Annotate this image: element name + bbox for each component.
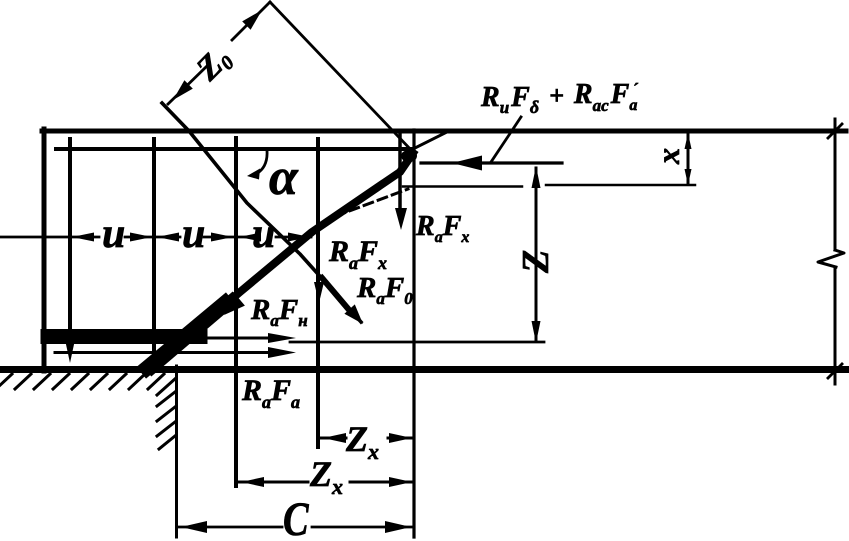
top longitudinal rebar [56, 147, 413, 151]
extension line y=186 left [403, 185, 522, 188]
compression force arrowhead [452, 156, 482, 171]
Z0 top arrowhead [242, 10, 262, 30]
compression force line [421, 161, 562, 164]
Zx dimension [239, 481, 412, 484]
stirrup 3 / Zx extension [234, 138, 238, 486]
inclined crack / bent-up bar [150, 153, 413, 369]
rebar level extension line [290, 341, 544, 344]
svg-text:α: α [269, 149, 299, 206]
stirrup 1 [68, 139, 72, 348]
RaFa anchorage force arrow [55, 351, 280, 354]
RaFx force arrow at x=400 [398, 135, 402, 215]
beam left edge [42, 129, 47, 371]
svg-text:C: C [283, 493, 310, 541]
bottom rebar thick band [48, 329, 200, 344]
alpha leader arrowhead [247, 169, 260, 180]
support face vertical / C-dimension extension [175, 366, 178, 537]
beam top edge [42, 129, 846, 134]
RaF0 arrowhead [344, 304, 363, 324]
svg-text:u: u [102, 211, 125, 257]
tick top [828, 124, 842, 138]
crack thick lower part [152, 300, 232, 368]
svg-text:u: u [252, 211, 275, 257]
svg-text:x: x [650, 148, 686, 165]
angle alpha leader arc [259, 150, 267, 172]
label leader line [491, 117, 521, 162]
support face hatching [157, 392, 175, 449]
bent bar force arrowhead [224, 296, 245, 315]
Z0 bottom arrowhead [173, 80, 193, 100]
svg-text:Z: Z [515, 250, 557, 274]
Z0 dimension line [168, 2, 270, 104]
stirrup 2 [152, 139, 156, 365]
crack tip blob [401, 150, 417, 162]
ground hatching [0, 374, 176, 395]
crack foot blob [147, 303, 225, 368]
x small dimension line [687, 134, 690, 184]
RaFH force arrow [185, 337, 278, 340]
support surface bottom line [0, 366, 848, 373]
RaF0 thick arrow shaft [322, 278, 350, 311]
perpendicular line P1 through crack tip [270, 2, 413, 152]
svg-text:RaFx: RaFx [415, 211, 469, 246]
Zx small dimension [321, 437, 413, 440]
section extension line at crack tip [412, 130, 415, 537]
u spacing dimension row [0, 236, 311, 239]
svg-text:u: u [182, 211, 205, 257]
perpendicular line P2 with RaF0 force [162, 103, 361, 322]
stirrup 1 force arrowhead [66, 342, 75, 363]
Z dimension line [535, 168, 538, 341]
extension line y=185 right [546, 184, 695, 187]
dashed crack line [336, 189, 408, 216]
C dimension [179, 526, 412, 529]
stirrup 4 force arrowhead RaFx [314, 282, 324, 303]
stirrup 4 / Zx small extension [316, 139, 320, 447]
right height dimension line with break [834, 119, 837, 250]
tick bottom [828, 364, 842, 378]
rebar end bend up to top edge [413, 132, 447, 149]
